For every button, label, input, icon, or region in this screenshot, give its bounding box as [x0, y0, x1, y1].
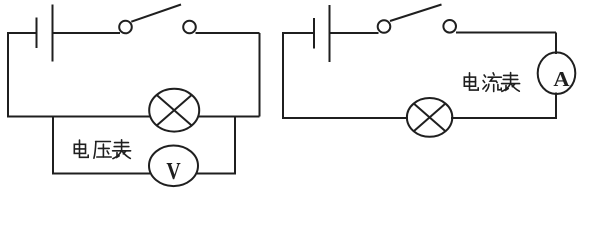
wire bottom-right to lamp L2 — [451, 117, 556, 119]
label 电压表 (voltmeter label) — [74, 140, 130, 159]
battery B1 — [37, 5, 53, 62]
switch S2 — [378, 5, 456, 33]
voltmeter V1 — [149, 146, 198, 187]
battery B2 — [314, 5, 330, 62]
ammeter A1 — [538, 52, 576, 94]
wire S2 to right corner — [456, 32, 556, 34]
svg-text:V: V — [166, 158, 181, 185]
label 电流表 (ammeter label) — [464, 73, 519, 92]
wire ammeter A1 down to bottom rail — [555, 93, 557, 120]
lamp L1 — [149, 89, 199, 132]
wire right rail (down) — [259, 33, 261, 117]
lamp L2 — [407, 98, 452, 137]
wire voltmeter branch left (down) — [52, 117, 54, 175]
wire top-left (B2 to left rail) — [282, 32, 314, 34]
wire left rail (down) — [7, 32, 9, 118]
wire voltmeter branch right (up) — [234, 117, 236, 175]
wire B1 to switch S1 — [53, 32, 121, 34]
wire lamp L1 to left rail — [7, 116, 151, 118]
wire top-left (B1 to left rail) — [7, 32, 37, 34]
wire B2 to switch S2 — [330, 32, 379, 34]
wire bottom-right to lamp L1 — [198, 116, 260, 118]
wire voltmeter branch bottom-left — [52, 173, 150, 175]
svg-text:A: A — [553, 67, 570, 91]
wire lamp L2 to left rail — [283, 117, 408, 119]
wire left rail (down) — [282, 32, 284, 119]
wire right rail to ammeter A1 — [555, 33, 557, 55]
switch S1 — [119, 5, 196, 34]
wire voltmeter branch bottom-right — [197, 173, 235, 175]
wire S1 to right rail — [196, 32, 260, 34]
